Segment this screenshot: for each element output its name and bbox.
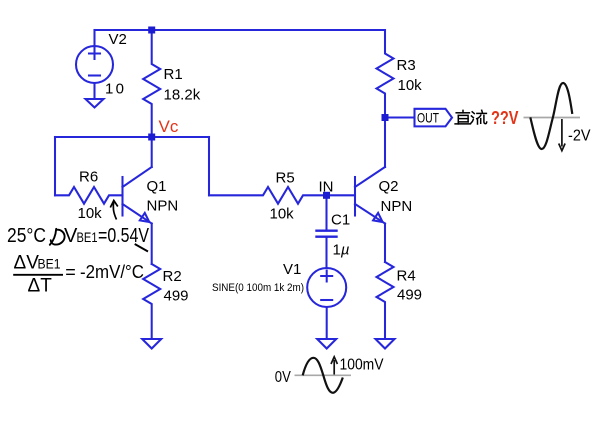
transistor Q2	[355, 118, 385, 263]
annotation: output sine wave	[524, 83, 591, 151]
wire left drop to R6	[54, 137, 56, 195]
svg-text:0V: 0V	[275, 369, 292, 386]
svg-text:R1: R1	[164, 66, 183, 83]
svg-text:10k: 10k	[78, 205, 103, 222]
annotation: black arrow near Q1 base	[110, 201, 118, 220]
svg-text:499: 499	[397, 287, 422, 304]
annotation: input sine wave	[275, 357, 384, 393]
kanji chokuryu (DC) drawn	[455, 110, 487, 124]
annotation: 25°C no VBE1=0.54V	[7, 225, 150, 247]
svg-text:NPN: NPN	[381, 198, 413, 215]
svg-text:1µ: 1µ	[333, 242, 350, 259]
annotation leader line	[135, 244, 148, 252]
svg-text:R3: R3	[397, 57, 416, 74]
svg-text:??V: ??V	[491, 107, 519, 128]
svg-text:BE1: BE1	[77, 230, 98, 245]
node Vc junction	[148, 134, 155, 141]
svg-text:499: 499	[164, 288, 189, 305]
svg-text:C1: C1	[331, 212, 350, 229]
voltage source V1	[307, 268, 346, 339]
resistor R5	[209, 187, 327, 204]
svg-text:-2mV/°C: -2mV/°C	[80, 262, 144, 282]
svg-text:V1: V1	[283, 261, 301, 278]
svg-text:=: =	[65, 262, 76, 282]
node junction top rail / R1	[148, 27, 155, 34]
wire Vc rail	[55, 136, 209, 138]
kanji 直	[456, 112, 469, 114]
kanji 流	[471, 112, 474, 123]
svg-text:Q1: Q1	[147, 178, 167, 195]
svg-text:10k: 10k	[270, 206, 295, 223]
svg-text:R4: R4	[397, 268, 416, 285]
node junction squares	[148, 27, 388, 199]
svg-text:IN: IN	[319, 179, 334, 196]
annotation: dVBE1/dT fraction	[13, 253, 144, 297]
svg-text:=0.54V: =0.54V	[98, 225, 150, 247]
capacitor C1	[317, 195, 337, 268]
arrow down -2V	[561, 119, 563, 147]
annotation: output text	[455, 107, 519, 128]
svg-text:-2V: -2V	[568, 127, 591, 144]
svg-text:BE1: BE1	[38, 257, 61, 272]
ground (V2)	[86, 99, 104, 108]
svg-text:Vc: Vc	[159, 117, 179, 136]
node OUT junction	[382, 114, 389, 121]
svg-text:R5: R5	[276, 170, 295, 187]
resistor R2	[143, 264, 160, 339]
node IN junction	[323, 192, 330, 199]
svg-text:ΔV: ΔV	[14, 253, 40, 274]
ground (R4)	[376, 339, 395, 349]
voltage source V2	[76, 30, 113, 99]
resistor R6	[55, 187, 123, 204]
svg-text:10k: 10k	[398, 77, 423, 94]
svg-text:ΔT: ΔT	[28, 276, 53, 297]
svg-text:25°C: 25°C	[7, 225, 46, 247]
OUT flag	[415, 109, 453, 127]
resistor R3	[377, 30, 394, 118]
wire top rail	[95, 29, 386, 31]
svg-text:R6: R6	[79, 169, 98, 186]
svg-text:OUT: OUT	[417, 110, 439, 126]
svg-text:NPN: NPN	[147, 198, 179, 215]
svg-text:18.2k: 18.2k	[164, 87, 201, 104]
wire right drop from Vc rail	[208, 137, 210, 195]
svg-text:V2: V2	[109, 31, 127, 48]
wire OUT	[385, 116, 415, 118]
svg-text:R2: R2	[163, 268, 182, 285]
arrow up 100mV	[333, 360, 335, 375]
svg-text:Q2: Q2	[379, 178, 399, 195]
transistor Q1	[123, 137, 152, 264]
wire IN to Q2 base	[327, 194, 356, 196]
ground (V1)	[317, 339, 336, 349]
hiragana no glyph	[50, 229, 65, 245]
resistor R1	[143, 30, 160, 137]
svg-text:100mV: 100mV	[340, 357, 384, 374]
resistor R4	[377, 262, 394, 339]
svg-text:SINE(0 100m 1k 2m): SINE(0 100m 1k 2m)	[212, 282, 304, 294]
ground (R2)	[142, 339, 161, 349]
